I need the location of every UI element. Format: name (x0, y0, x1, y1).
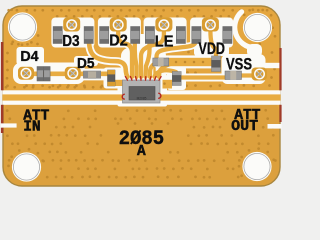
test point pad VDD (202, 18, 219, 32)
trace copper (26, 30, 253, 78)
IC leads (red) top (125, 77, 161, 81)
test point D2 (113, 19, 124, 30)
capacitor right of D3 (84, 27, 93, 44)
resistor below LE (153, 58, 169, 66)
RF trace ATT OUT (160, 94, 281, 100)
svg-text:D3: D3 (62, 33, 80, 50)
connector tick right (268, 124, 282, 129)
test point pad D3 (63, 18, 80, 32)
capacitor right of D2 (131, 27, 140, 44)
svg-text:D2: D2 (109, 33, 128, 50)
capacitor left of VDD (192, 27, 201, 44)
capacitor right of VDD (223, 27, 232, 44)
RF trace ATT IN (3, 94, 124, 100)
svg-text:D4: D4 (20, 49, 39, 65)
capacitor right of LE (176, 27, 185, 44)
test point VDD (205, 19, 216, 30)
soldermask opening: component unit rows (3, 18, 281, 107)
test point D4 (21, 68, 32, 79)
PCB board outline (3, 6, 280, 186)
board edge red stripe right (279, 48, 281, 90)
connector tick left (1, 123, 17, 127)
capacitor left of LE (145, 27, 154, 44)
IC U1 body (123, 80, 161, 103)
resistor D5 (83, 71, 100, 78)
resistor VSS (225, 71, 242, 80)
inductor left of IC (108, 70, 116, 86)
board edge red stripe left (1, 42, 4, 90)
pad block right of IC (163, 80, 173, 89)
test point pad LE (155, 18, 172, 32)
mounting hole bottom-left (12, 152, 41, 181)
test point pad D4 (18, 67, 34, 80)
vias (dot pattern) (5, 8, 277, 178)
capacitor left of D2 (100, 27, 109, 44)
IC lead right (RF out) (158, 93, 161, 98)
power bus trace (164, 55, 215, 68)
capacitor below VDD (212, 56, 221, 72)
IC lead left (RF in) (122, 94, 125, 99)
svg-text:A: A (137, 144, 146, 160)
fan traces into IC (132, 68, 155, 77)
mounting hole top-left (8, 12, 37, 41)
pad block left of IC (114, 80, 123, 86)
svg-text:VSS: VSS (226, 55, 252, 74)
mounting hole bottom-right (242, 152, 271, 181)
test point LE (158, 19, 169, 30)
svg-text:VDD: VDD (199, 39, 226, 58)
mounting hole top-right (243, 13, 272, 42)
svg-text:IN: IN (23, 119, 41, 135)
capacitor left of D3 (53, 27, 62, 44)
svg-text:D5: D5 (77, 56, 95, 72)
svg-text:LE: LE (155, 33, 174, 50)
test point VSS (254, 69, 265, 80)
test point D3 (66, 19, 77, 30)
test point pad D5 (65, 67, 81, 80)
inductor right of IC (172, 72, 181, 86)
test point pad VSS (252, 68, 268, 81)
svg-text:OUT: OUT (231, 119, 258, 135)
test point D5 (67, 68, 78, 79)
test point pad D2 (110, 18, 127, 32)
capacitors D4 (37, 67, 50, 82)
svg-text:M2085: M2085 (137, 97, 147, 101)
pour clearance arc around top-right hole (235, 12, 255, 48)
signal traces (26, 30, 253, 78)
